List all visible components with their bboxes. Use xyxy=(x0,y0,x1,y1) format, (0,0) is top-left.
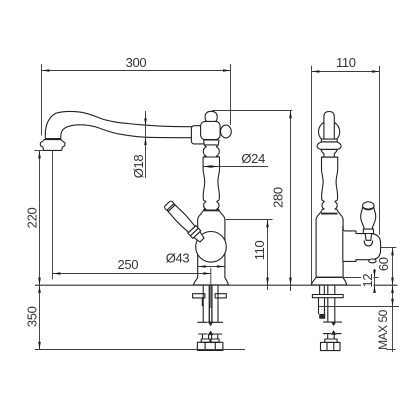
svg-text:300: 300 xyxy=(126,55,147,70)
svg-text:60: 60 xyxy=(376,257,391,271)
svg-text:Ø43: Ø43 xyxy=(166,251,190,266)
svg-text:350: 350 xyxy=(25,306,40,327)
svg-text:Ø24: Ø24 xyxy=(241,151,265,166)
svg-text:110: 110 xyxy=(336,55,356,70)
svg-text:MAX 50: MAX 50 xyxy=(376,309,390,350)
svg-text:Ø18: Ø18 xyxy=(131,155,146,179)
svg-text:12: 12 xyxy=(360,274,375,288)
svg-text:280: 280 xyxy=(270,187,285,208)
svg-text:250: 250 xyxy=(117,257,138,272)
svg-text:220: 220 xyxy=(25,208,40,229)
svg-text:110: 110 xyxy=(252,240,267,260)
